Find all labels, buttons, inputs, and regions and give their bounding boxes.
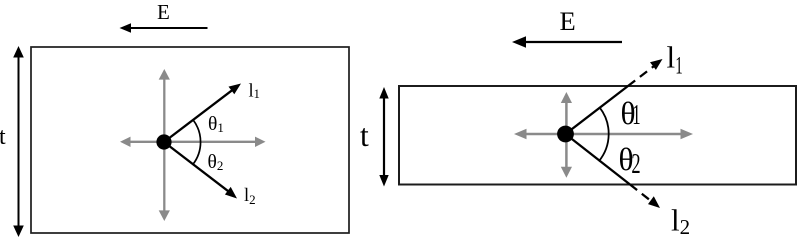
track arrow l2 solid segment (right panel): [566, 134, 631, 185]
angle arc (left panel): [193, 120, 201, 164]
svg-text:l2: l2: [671, 203, 690, 238]
scattering point dot (right panel): [557, 126, 574, 143]
svg-text:1: 1: [675, 53, 683, 80]
label l2 (right panel): [671, 203, 690, 240]
thickness arrow t (right panel): [379, 87, 388, 187]
label t (left panel): [0, 124, 6, 150]
E field arrow (right panel): [512, 36, 622, 48]
gray vertical axis arrow (left panel): [159, 69, 170, 221]
thickness arrow t (left panel): [13, 46, 24, 237]
svg-text:t: t: [360, 118, 369, 153]
label l1 (right panel): [667, 40, 683, 80]
E field arrow (left panel): [120, 23, 208, 33]
label theta1 (left panel): [208, 114, 224, 135]
gray vertical axis arrow (right panel): [561, 92, 572, 178]
track arrow l1 (left panel): [164, 84, 241, 143]
gray horizontal axis arrow (left panel): [120, 137, 266, 147]
svg-text:θ2: θ2: [208, 152, 224, 173]
svg-text:l: l: [667, 40, 676, 75]
angle arc (right panel): [599, 107, 609, 161]
gray horizontal axis arrow (right panel): [514, 129, 693, 139]
label l1 (left panel): [249, 82, 260, 102]
label E (left panel): [157, 0, 170, 24]
label theta2 (left panel): [208, 152, 224, 173]
label theta2 (right panel): [619, 142, 641, 180]
label theta1 (right panel): [621, 96, 641, 131]
track arrow l2 (left panel): [164, 142, 237, 199]
label t (right panel): [360, 118, 369, 153]
slab rectangle (left panel): [31, 47, 349, 233]
label l2 (left panel): [244, 186, 256, 207]
label E (right panel): [560, 6, 576, 36]
scattering point dot (left panel): [156, 134, 171, 149]
svg-text:θ1: θ1: [208, 114, 224, 135]
svg-text:l2: l2: [244, 186, 256, 207]
svg-text:t: t: [0, 124, 6, 150]
svg-text:1: 1: [632, 99, 640, 131]
svg-text:2: 2: [631, 150, 640, 181]
svg-text:E: E: [560, 6, 576, 36]
svg-text:l1: l1: [249, 82, 260, 102]
svg-text:E: E: [157, 0, 170, 24]
slab rectangle (right panel): [399, 86, 796, 185]
track arrow l1 dashed extension (right panel): [628, 59, 663, 86]
track arrow l2 dashed extension (right panel): [630, 185, 660, 209]
track arrow l1 solid segment (right panel): [566, 86, 629, 134]
